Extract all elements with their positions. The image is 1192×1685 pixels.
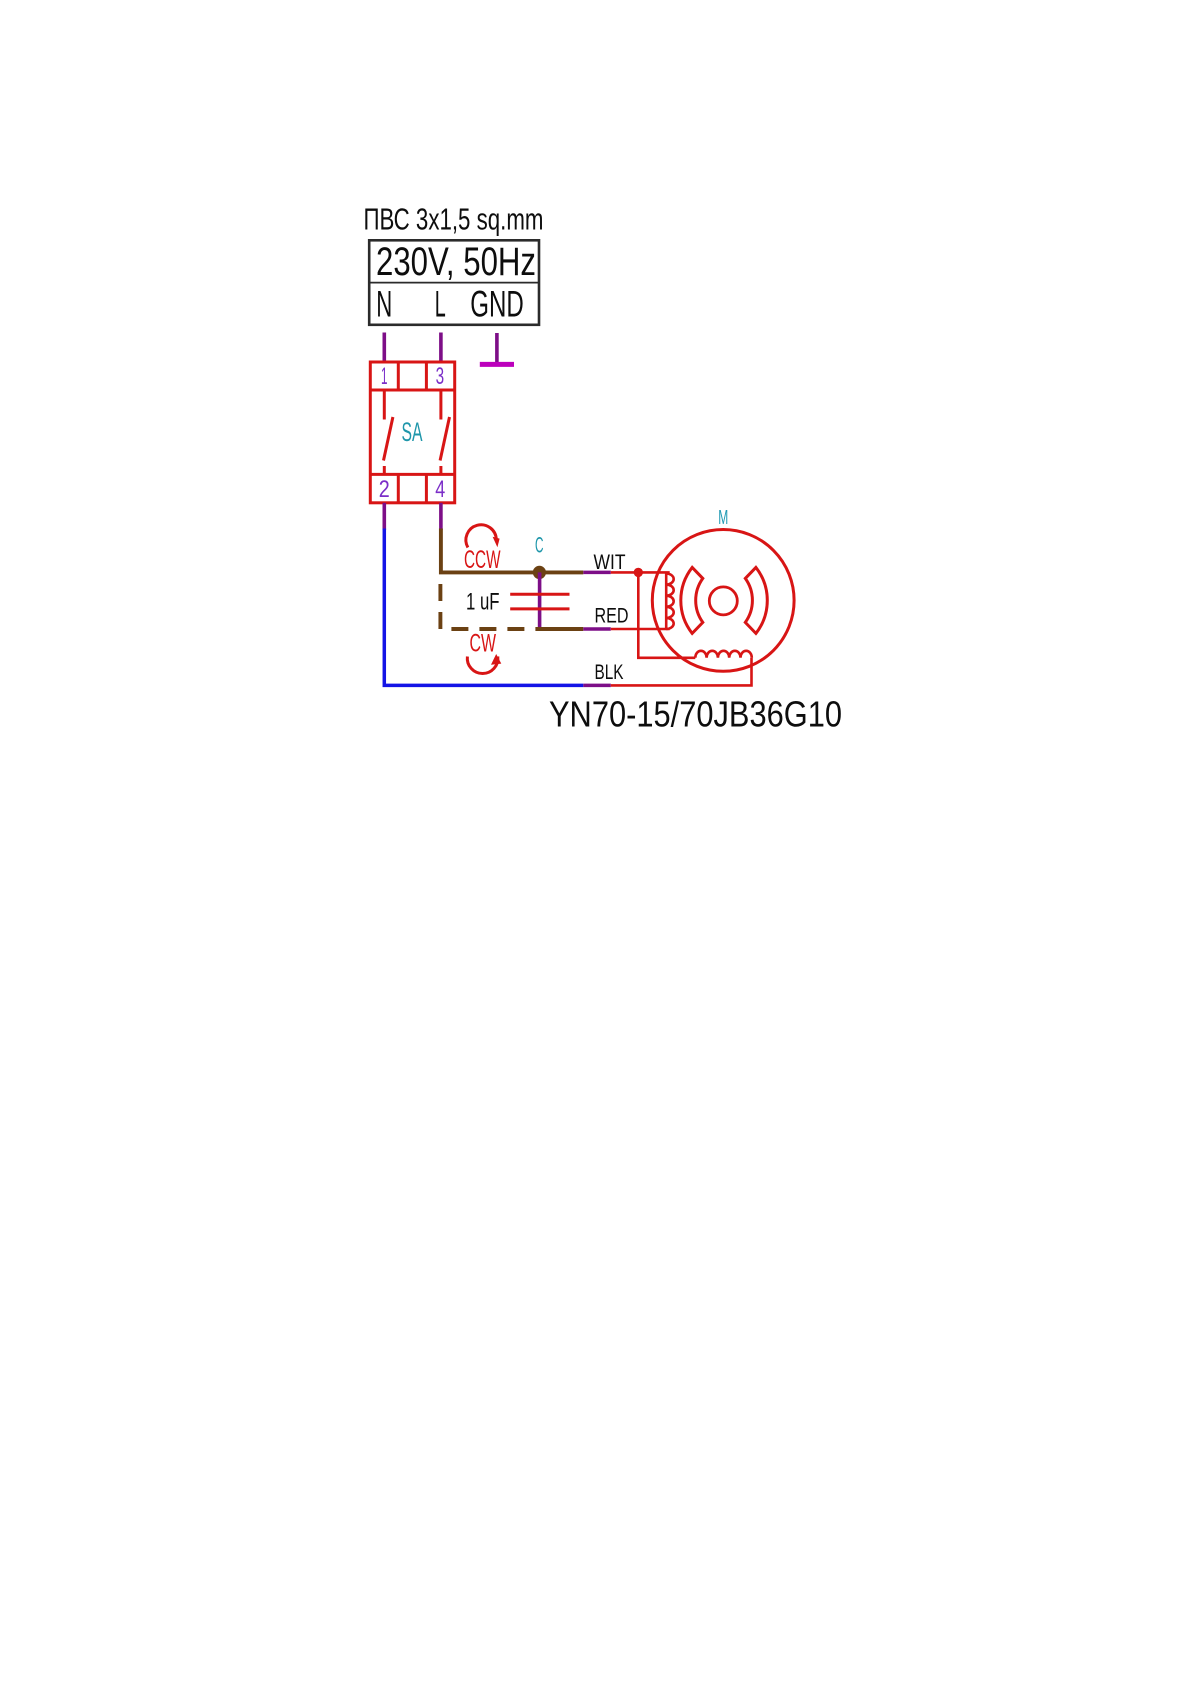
capacitor lead purple <box>538 572 542 629</box>
CW dashed return path <box>440 584 539 629</box>
aux winding baseline <box>665 574 668 630</box>
WIT purple segment <box>583 571 611 575</box>
BLK purple segment <box>583 684 611 688</box>
top strip divider 1 <box>397 362 400 390</box>
svg-text:230V, 50Hz: 230V, 50Hz <box>376 240 536 284</box>
RED red segment <box>611 628 670 631</box>
wire pin 4 purple stub <box>439 503 443 530</box>
svg-text:BLK: BLK <box>595 660 624 684</box>
main winding coil <box>695 651 752 658</box>
CW rotation arrow <box>467 654 501 674</box>
ground symbol bar <box>480 362 514 367</box>
GND wire stub <box>495 333 499 366</box>
live wire brown <box>441 529 583 573</box>
svg-text:ПВС 3x1,5 sq.mm: ПВС 3x1,5 sq.mm <box>364 203 544 237</box>
CCW rotation arrow <box>466 525 500 548</box>
top strip divider 2 <box>425 362 428 390</box>
aux winding feed wire <box>638 572 695 657</box>
motor junction dot <box>634 568 643 577</box>
svg-text:L: L <box>435 283 446 325</box>
capacitor plate top <box>510 593 569 596</box>
svg-text:1 uF: 1 uF <box>466 589 500 616</box>
svg-text:CW: CW <box>470 630 497 658</box>
svg-text:YN70-15/70JB36G10: YN70-15/70JB36G10 <box>549 694 842 735</box>
svg-text:1: 1 <box>381 363 388 390</box>
RED brown segment <box>538 627 583 631</box>
WIT red segment <box>611 571 670 574</box>
switch top terminal strip line <box>370 389 454 392</box>
pole 1 upper contact stub <box>383 392 386 420</box>
svg-text:WIT: WIT <box>594 550 626 574</box>
node C junction dot <box>533 566 546 579</box>
wire N to switch pin 1 <box>382 333 386 363</box>
pole 2 lower contact stub <box>439 466 442 474</box>
wire pin 2 purple stub <box>382 503 386 530</box>
pole 2 blade <box>440 417 449 461</box>
box separator line <box>369 282 539 284</box>
capacitor plate bottom <box>510 607 569 610</box>
stator arc left <box>681 567 703 633</box>
wire L to switch pin 3 <box>439 333 443 363</box>
svg-text:3: 3 <box>436 363 445 390</box>
bottom strip divider 1 <box>397 474 400 502</box>
pole 1 lower contact stub <box>383 466 386 474</box>
aux winding coil <box>666 574 674 630</box>
switch bottom terminal strip line <box>370 473 454 476</box>
pole 2 upper contact stub <box>439 392 442 420</box>
svg-text:2: 2 <box>379 476 390 503</box>
switch SA outer box <box>370 362 454 503</box>
BLK red segment to motor <box>611 658 752 686</box>
svg-text:GND: GND <box>470 283 524 325</box>
svg-text:M: M <box>718 507 728 529</box>
rotor circle <box>709 587 737 615</box>
neutral wire blue <box>384 529 583 686</box>
svg-text:RED: RED <box>595 603 629 627</box>
svg-text:N: N <box>376 283 392 325</box>
bottom strip divider 2 <box>425 474 428 502</box>
pole 1 blade <box>384 417 393 461</box>
svg-text:C: C <box>535 533 544 558</box>
stator arc right <box>745 567 767 633</box>
RED purple segment <box>583 627 611 631</box>
power terminal box <box>369 240 539 324</box>
svg-text:4: 4 <box>435 476 445 503</box>
motor M outer circle <box>652 530 794 672</box>
svg-text:SA: SA <box>402 417 423 447</box>
svg-text:CCW: CCW <box>464 546 501 574</box>
